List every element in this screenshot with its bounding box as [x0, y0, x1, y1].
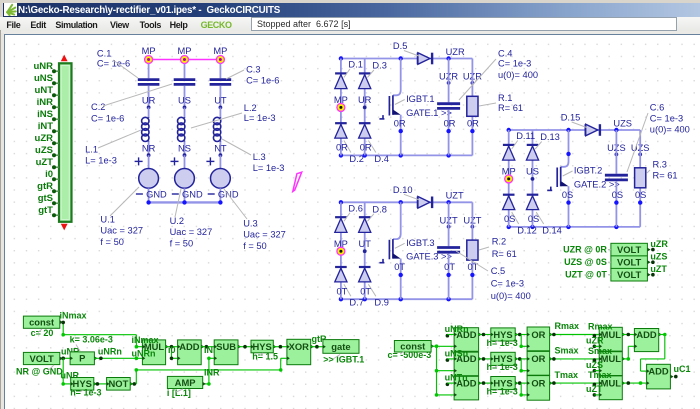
wire	[615, 181, 617, 227]
gate block gate	[323, 340, 359, 354]
wire P to MUL	[94, 357, 142, 359]
svg-text:Rmax: Rmax	[555, 321, 580, 331]
logic block XOR	[287, 339, 311, 364]
source block const c=-500e-3	[394, 341, 431, 353]
wire HYS to NOT	[94, 383, 107, 385]
wire	[184, 107, 186, 117]
svg-text:i0: i0	[168, 345, 176, 355]
svg-text:NS: NS	[178, 144, 191, 154]
svg-text:D.12: D.12	[517, 225, 537, 235]
svg-text:R.2: R.2	[492, 236, 506, 246]
svg-text:OR: OR	[531, 377, 545, 388]
svg-text:0S: 0S	[635, 190, 646, 200]
svg-text:k= 3.06e-3: k= 3.06e-3	[70, 334, 113, 344]
wire bottom rail	[509, 226, 641, 228]
adder block ADD.5	[634, 329, 658, 352]
svg-text:NR: NR	[142, 144, 156, 154]
svg-text:D.8: D.8	[372, 204, 386, 214]
svg-text:AMP: AMP	[175, 377, 196, 388]
wire UR column	[340, 59, 342, 156]
svg-text:OR: OR	[531, 329, 545, 340]
svg-text:VOLT: VOLT	[29, 353, 54, 364]
wire	[184, 64, 186, 78]
svg-text:D.15: D.15	[561, 113, 581, 123]
svg-text:U.2: U.2	[170, 216, 184, 226]
wire top rail	[509, 129, 641, 131]
diode D.15	[585, 124, 587, 136]
svg-text:f = 50: f = 50	[100, 237, 124, 247]
svg-text:0S: 0S	[504, 214, 515, 224]
svg-text:L= 1e-3: L= 1e-3	[244, 113, 276, 123]
wire OR second input row 3	[520, 383, 522, 395]
voltage source U.2	[171, 160, 179, 162]
svg-text:Uac = 327: Uac = 327	[170, 227, 213, 237]
svg-text:u(0)= 400: u(0)= 400	[491, 291, 531, 301]
svg-text:C.3: C.3	[246, 64, 260, 74]
svg-text:D.11: D.11	[516, 131, 535, 141]
svg-text:UZS: UZS	[613, 118, 632, 128]
svg-text:VOLT: VOLT	[617, 244, 642, 255]
wire	[471, 59, 473, 156]
svg-text:Smax: Smax	[588, 346, 612, 356]
adder block ADD.4	[454, 376, 479, 400]
svg-text:D.7: D.7	[349, 298, 363, 308]
wire MUL to ADD	[166, 346, 178, 348]
diode D.3	[359, 72, 371, 74]
resistor R.3	[635, 168, 646, 188]
svg-text:D.1: D.1	[348, 60, 362, 70]
svg-text:D.2: D.2	[349, 154, 363, 164]
svg-text:uNR: uNR	[33, 61, 53, 72]
svg-text:UZT @ 0T: UZT @ 0T	[565, 270, 607, 280]
svg-text:ADD: ADD	[636, 329, 657, 340]
svg-text:0R: 0R	[360, 143, 372, 153]
wire	[471, 202, 473, 299]
svg-text:0R: 0R	[336, 143, 348, 153]
svg-text:UT: UT	[358, 239, 371, 249]
svg-text:uZR: uZR	[35, 133, 54, 144]
diode D.5	[417, 53, 419, 65]
voltmeter VOLT.S	[611, 256, 648, 269]
svg-text:XOR: XOR	[289, 341, 310, 352]
wire 0R column	[364, 59, 366, 156]
svg-text:iNS: iNS	[37, 109, 53, 120]
wire ADD5 to ADD6	[659, 334, 665, 336]
wire	[219, 142, 221, 156]
diode D.13	[527, 144, 539, 146]
wire top rail	[341, 58, 473, 60]
pen cursor	[293, 172, 302, 191]
svg-text:R= 61: R= 61	[498, 103, 523, 113]
capacitor C.5	[437, 246, 460, 249]
svg-text:L= 1e-3: L= 1e-3	[253, 163, 285, 173]
svg-text:GND: GND	[182, 189, 203, 199]
svg-text:L.3: L.3	[253, 152, 266, 162]
wire ADD to HYS row 3	[479, 382, 491, 384]
svg-text:P: P	[79, 353, 85, 364]
wire SUB to HYS	[238, 346, 251, 348]
diode D.10	[417, 197, 419, 209]
resistor R.2	[467, 240, 478, 260]
svg-text:D.3: D.3	[372, 61, 386, 71]
capacitor C.6	[605, 174, 628, 177]
ground GND source 1	[136, 193, 143, 195]
diode D.6	[335, 216, 347, 218]
svg-text:uNRn: uNRn	[445, 324, 469, 334]
svg-text:MP: MP	[142, 46, 156, 56]
hysteresis block HYS.3	[491, 328, 515, 341]
svg-text:UZR @ 0R: UZR @ 0R	[563, 244, 607, 254]
hysteresis block HYS.2	[251, 340, 273, 353]
multiplier block MUL.1	[142, 340, 165, 365]
wire HYS to XOR	[273, 346, 287, 348]
node uZS scope input	[54, 154, 59, 156]
node i0 scope input	[54, 178, 59, 180]
wire	[148, 64, 150, 78]
transistor IGBT.3	[393, 202, 401, 239]
wire OR second input row 1	[520, 335, 522, 347]
svg-text:U.3: U.3	[243, 219, 257, 229]
capacitor C.1	[138, 78, 160, 81]
wire	[219, 86, 221, 108]
scope trigger marker top	[61, 55, 68, 62]
svg-text:iNR: iNR	[37, 97, 54, 108]
wire bottom rail	[341, 298, 473, 300]
wire ADD to HYS row 2	[479, 358, 491, 360]
svg-text:i [L.1]: i [L.1]	[167, 388, 191, 398]
svg-text:L= 1e-3: L= 1e-3	[85, 155, 117, 165]
wire VOLT to P	[60, 357, 70, 359]
svg-text:uNT: uNT	[35, 85, 54, 96]
wire GND bus	[149, 201, 221, 203]
svg-text:MP: MP	[213, 46, 227, 56]
svg-text:gate: gate	[331, 341, 350, 352]
wire OR to MUL row 3	[550, 382, 600, 384]
node gtS scope input	[54, 202, 59, 204]
transistor IGBT.2	[561, 130, 569, 167]
capacitor branch wire	[615, 130, 617, 174]
multiplier block MUL.3	[599, 352, 622, 376]
svg-text:ADD: ADD	[179, 341, 200, 352]
adder block ADD.2	[454, 328, 479, 352]
svg-text:uZT: uZT	[586, 384, 603, 394]
svg-text:C= 1e-3: C= 1e-3	[498, 59, 531, 69]
node iNS scope input	[54, 118, 59, 120]
svg-text:C.1: C.1	[97, 48, 111, 58]
svg-text:GND: GND	[146, 189, 167, 199]
svg-text:iNT: iNT	[38, 121, 54, 132]
svg-text:D.14: D.14	[542, 225, 562, 235]
svg-text:D.6: D.6	[348, 203, 362, 213]
svg-text:UZT: UZT	[446, 191, 464, 201]
wire 0T column	[364, 202, 366, 299]
wire	[148, 86, 150, 108]
diode D.11	[503, 144, 515, 146]
logic block NOT	[107, 378, 131, 391]
wire NOT to XOR	[130, 383, 136, 385]
hysteresis block HYS.5	[491, 377, 515, 390]
wire const to ADDs	[431, 345, 436, 347]
svg-text:U.1: U.1	[100, 214, 114, 224]
voltmeter VOLT.R	[611, 243, 648, 256]
ground GND source 3	[208, 193, 215, 195]
svg-text:h= 1.5: h= 1.5	[252, 351, 278, 361]
multiplier block MUL.4	[599, 376, 622, 400]
svg-text:iNmax: iNmax	[60, 311, 87, 321]
svg-text:u(0)= 400: u(0)= 400	[498, 70, 538, 80]
voltmeter VOLT.T	[611, 268, 648, 281]
node uNR scope input	[54, 70, 59, 72]
svg-text:C= 1e-3: C= 1e-3	[650, 114, 683, 124]
svg-text:Tmax: Tmax	[588, 370, 612, 380]
svg-text:uNS: uNS	[34, 73, 53, 84]
svg-text:R.3: R.3	[653, 159, 667, 169]
svg-text:uZR: uZR	[650, 239, 668, 249]
svg-text:US: US	[526, 167, 539, 177]
svg-text:UZR: UZR	[446, 47, 465, 57]
wire	[219, 107, 221, 117]
logic block OR.1	[527, 327, 550, 351]
svg-text:Uac = 327: Uac = 327	[243, 230, 286, 240]
svg-text:0T: 0T	[394, 262, 405, 272]
svg-text:0R: 0R	[467, 118, 479, 128]
svg-text:0S: 0S	[562, 190, 573, 200]
node gtR scope input	[54, 190, 59, 192]
svg-text:R= 61: R= 61	[492, 249, 517, 259]
wire	[148, 142, 150, 156]
inductor L.1	[148, 117, 150, 118]
wire MUL4 to ADD6	[622, 382, 646, 384]
svg-text:f = 50: f = 50	[170, 238, 194, 248]
svg-text:NR @ GND: NR @ GND	[16, 366, 63, 376]
diode D.8	[359, 216, 371, 218]
svg-text:uC1: uC1	[674, 364, 691, 374]
wire XOR to gate	[311, 346, 323, 348]
svg-text:C= 1e-3: C= 1e-3	[491, 278, 524, 288]
svg-text:0R: 0R	[444, 118, 456, 128]
svg-text:uZT: uZT	[650, 264, 667, 274]
junction	[566, 152, 570, 156]
wire	[184, 86, 186, 108]
adder block ADD.6	[647, 364, 671, 389]
wire const to MUL	[60, 321, 63, 323]
svg-text:R= 61: R= 61	[653, 171, 678, 181]
node iNT scope input	[54, 130, 59, 132]
svg-text:VOLT: VOLT	[617, 257, 642, 268]
logic block OR.3	[527, 376, 550, 401]
transistor IGBT.1	[393, 59, 401, 96]
svg-text:D.10: D.10	[393, 185, 413, 195]
wire MUL2 to ADD top	[622, 358, 628, 360]
svg-text:0T: 0T	[444, 262, 455, 272]
svg-text:Smax: Smax	[555, 346, 579, 356]
diode D.4	[359, 122, 371, 124]
wire VOLT to HYS	[62, 358, 64, 384]
svg-text:Tmax: Tmax	[555, 370, 579, 380]
wire OR to MUL row 1	[550, 334, 600, 336]
diode D.14	[527, 194, 539, 196]
svg-text:ADD: ADD	[648, 365, 669, 376]
diode D.12	[503, 194, 515, 196]
svg-text:c= 20: c= 20	[31, 328, 54, 338]
diode D.1	[335, 72, 347, 74]
wire HYS to OR row 3	[515, 382, 527, 384]
svg-text:UZS @ 0S: UZS @ 0S	[564, 257, 607, 267]
capacitor branch wire	[448, 59, 450, 103]
wire OR second input row 2	[520, 359, 522, 371]
wire bottom rail	[341, 154, 473, 156]
svg-text:gtS: gtS	[38, 193, 53, 204]
svg-text:C.6: C.6	[650, 103, 664, 113]
wire AMP to SUB	[203, 383, 209, 385]
inductor L.3	[219, 117, 221, 118]
svg-text:uZS: uZS	[650, 251, 667, 261]
svg-text:uNRn: uNRn	[98, 346, 122, 356]
wire	[639, 130, 641, 227]
wire ADD to SUB	[201, 346, 214, 348]
svg-text:NOT: NOT	[109, 378, 129, 389]
diode D.2	[335, 122, 347, 124]
svg-text:D.13: D.13	[540, 132, 560, 142]
svg-text:SUB: SUB	[216, 341, 236, 352]
hysteresis block HYS.1	[71, 378, 94, 391]
svg-text:VOLT: VOLT	[617, 269, 642, 280]
svg-text:UR: UR	[358, 95, 372, 105]
svg-text:L.2: L.2	[244, 103, 257, 113]
source block const c=20	[23, 316, 59, 328]
svg-text:i0: i0	[45, 169, 53, 180]
svg-text:>> IGBT.1: >> IGBT.1	[323, 354, 364, 364]
svg-text:C.2: C.2	[91, 102, 105, 112]
hysteresis block HYS.4	[491, 352, 515, 365]
svg-text:MP: MP	[178, 46, 192, 56]
wire HYS to OR row 1	[515, 334, 527, 336]
svg-text:OR: OR	[531, 353, 545, 364]
svg-text:const: const	[29, 317, 54, 328]
svg-text:uNSn: uNSn	[445, 348, 469, 358]
svg-text:iNR: iNR	[204, 368, 220, 378]
svg-text:uZS: uZS	[586, 360, 603, 370]
scope trigger marker bottom	[61, 224, 68, 231]
voltage source U.1	[135, 160, 143, 162]
svg-text:D.4: D.4	[374, 154, 388, 164]
voltage source U.3	[206, 160, 214, 162]
diode D.7	[335, 266, 347, 268]
wire top rail	[341, 201, 473, 203]
svg-text:gtT: gtT	[38, 205, 53, 216]
wire UT column	[340, 202, 342, 299]
node uNT scope input	[54, 94, 59, 96]
voltmeter VOLT NR@GND	[23, 352, 59, 364]
svg-text:h= 1e-3: h= 1e-3	[487, 338, 518, 348]
wire US column	[508, 130, 510, 227]
svg-text:UT: UT	[214, 95, 227, 105]
svg-text:0S: 0S	[612, 190, 623, 200]
wire MP bus	[149, 59, 221, 61]
svg-text:IGBT.3: IGBT.3	[406, 238, 434, 248]
node uZR scope input	[54, 142, 59, 144]
svg-text:C.5: C.5	[491, 266, 505, 276]
svg-text:C= 1e-6: C= 1e-6	[91, 114, 124, 124]
svg-text:D.5: D.5	[393, 41, 407, 51]
wire OR to MUL row 2	[550, 358, 600, 360]
svg-text:uNTn: uNTn	[445, 373, 468, 383]
svg-text:u(0)= 400: u(0)= 400	[650, 125, 690, 135]
svg-text:UR: UR	[142, 95, 156, 105]
node gtT scope input	[54, 214, 59, 216]
node iNR scope input	[54, 106, 59, 108]
wire 0S column	[532, 130, 534, 227]
svg-text:Uac = 327: Uac = 327	[100, 226, 143, 236]
svg-text:0R: 0R	[394, 118, 406, 128]
subtractor block SUB	[214, 340, 238, 365]
svg-text:IGBT.1: IGBT.1	[406, 94, 434, 104]
svg-text:h= 1e-3: h= 1e-3	[487, 362, 518, 372]
svg-text:h= 1e-3: h= 1e-3	[487, 386, 518, 396]
adder block ADD.3	[454, 352, 479, 376]
ground GND source 2	[172, 193, 179, 195]
capacitor C.2	[174, 78, 196, 81]
svg-text:L.1: L.1	[85, 144, 98, 154]
svg-text:0T: 0T	[336, 287, 347, 297]
capacitor C.3	[210, 78, 232, 81]
svg-text:C= 1e-6: C= 1e-6	[246, 75, 279, 85]
svg-text:D.9: D.9	[374, 298, 388, 308]
svg-text:c= -500e-3: c= -500e-3	[388, 350, 432, 360]
svg-text:R.1: R.1	[498, 93, 512, 103]
resistor R.1	[467, 96, 478, 116]
svg-text:NT: NT	[214, 144, 227, 154]
scope SCOPE.1	[59, 63, 72, 222]
svg-text:h= 1e-3: h= 1e-3	[70, 388, 101, 398]
svg-text:uZT: uZT	[36, 157, 54, 168]
svg-text:iNmax: iNmax	[132, 335, 159, 345]
wire	[448, 110, 450, 156]
svg-text:Rmax: Rmax	[588, 321, 613, 331]
wire HYS to OR row 2	[515, 358, 527, 360]
inductor L.2	[184, 117, 186, 118]
svg-text:gtR: gtR	[37, 181, 53, 192]
wire MUL to ADD top	[622, 334, 634, 336]
wire	[448, 254, 450, 300]
adder block ADD.1	[178, 340, 202, 365]
capacitor branch wire	[448, 202, 450, 246]
wire	[148, 107, 150, 117]
svg-text:US: US	[178, 95, 191, 105]
capacitor C.4	[437, 102, 460, 105]
node uZT scope input	[54, 166, 59, 168]
node uNS scope input	[54, 82, 59, 84]
wire	[219, 64, 221, 78]
svg-text:0T: 0T	[360, 287, 371, 297]
diode D.9	[359, 266, 371, 268]
amplifier block AMP	[167, 376, 202, 388]
logic block OR.2	[527, 351, 550, 375]
svg-text:uZR: uZR	[586, 336, 604, 346]
svg-text:f = 50: f = 50	[243, 241, 267, 251]
svg-text:C.4: C.4	[498, 48, 512, 58]
svg-text:0S: 0S	[528, 214, 539, 224]
wire	[184, 142, 186, 156]
gain block P	[70, 352, 94, 365]
svg-text:uNRn: uNRn	[132, 349, 156, 359]
multiplier block MUL.2	[599, 327, 622, 351]
svg-text:uZS: uZS	[35, 145, 53, 156]
svg-text:IGBT.2: IGBT.2	[574, 166, 602, 176]
wire ADD to HYS row 1	[479, 334, 491, 336]
